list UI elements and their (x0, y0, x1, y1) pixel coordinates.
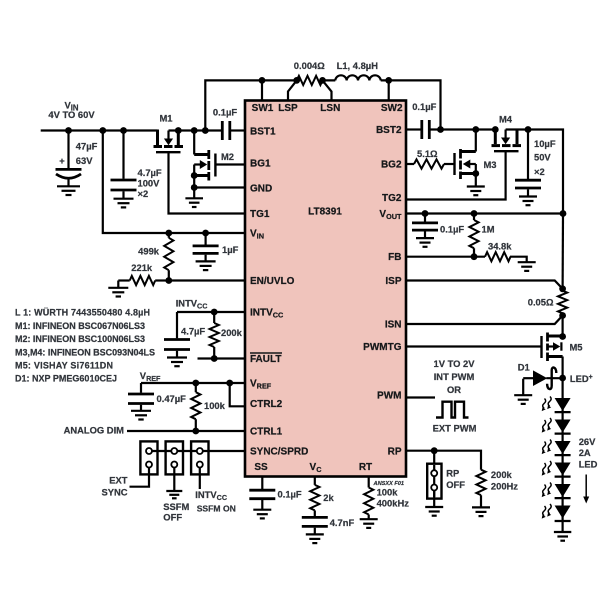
junction INTVCC 200k (211, 309, 218, 316)
wire VIN rail (41, 129, 158, 131)
node VIN label (48, 100, 95, 121)
svg-text:+: + (59, 155, 65, 166)
wire SW2 stem (388, 80, 390, 101)
wire INTVCC pin (177, 311, 245, 313)
junction VOUT 0.1uF (422, 210, 429, 217)
junction M2 drain drop (191, 127, 198, 134)
junction FAULT row (211, 355, 218, 362)
svg-text:BST1: BST1 (250, 127, 276, 138)
svg-text:EN/UVLO: EN/UVLO (250, 276, 295, 287)
wire BG1 to M2 gate (215, 163, 245, 165)
wire LSP stem (288, 80, 297, 101)
svg-text:RP: RP (388, 446, 402, 457)
svg-text:4V TO 60V: 4V TO 60V (48, 109, 95, 120)
ground under R10 (472, 507, 490, 516)
jumper JP3 (SSFM ON) (191, 441, 208, 489)
svg-text:200k: 200k (491, 469, 513, 480)
svg-text:4.7µF: 4.7µF (138, 167, 162, 178)
wire M4 gate to TG2 (406, 151, 506, 199)
junction 0.05 ohm bottom (559, 312, 566, 319)
capacitor C8 4.7nF (302, 517, 355, 534)
svg-text:4.7µF: 4.7µF (181, 326, 205, 337)
svg-text:2A: 2A (579, 447, 591, 458)
svg-text:2k: 2k (323, 492, 334, 503)
junction top-rail riser (202, 127, 209, 134)
wire SW1 stem (261, 80, 263, 101)
label SSFM OFF (163, 501, 189, 523)
capacitor C10 10uF 50V x2 (515, 130, 556, 197)
ground under C6 (131, 411, 151, 420)
svg-text:ISN: ISN (385, 320, 402, 331)
junction CTRL1 row (192, 428, 199, 435)
junction top rail SW1 stem (259, 77, 266, 84)
junction on VIN rail at VIN pin drop (99, 127, 106, 134)
svg-text:200k: 200k (221, 327, 243, 338)
svg-text:ISP: ISP (385, 276, 401, 287)
junction top rail SW2 stem (385, 77, 392, 84)
ground under C2 (114, 199, 134, 208)
svg-text:M5: M5 (570, 342, 583, 353)
pin FAULT label with overline (250, 353, 282, 365)
svg-text:TG2: TG2 (382, 193, 402, 204)
junction 0.05 ohm top (559, 285, 566, 292)
svg-text:SYNC/SPRD: SYNC/SPRD (250, 447, 308, 458)
wire M4 source to VOUT corner (506, 130, 563, 214)
resistor R10 200k 200Hz (476, 469, 518, 507)
junction EN row (165, 277, 172, 284)
junction LED+ node (559, 375, 566, 382)
junction VREF CTRL2 jog (226, 380, 233, 387)
svg-text:SSFM ON: SSFM ON (197, 503, 236, 513)
svg-text:CTRL1: CTRL1 (250, 427, 283, 438)
wire LSN stem (323, 80, 332, 101)
svg-text:M1: M1 (159, 113, 172, 124)
ground under JP2 (166, 491, 182, 498)
junction VIN row 499k (165, 230, 172, 237)
wire PWMTG row (406, 345, 542, 347)
svg-text:100k: 100k (204, 400, 226, 411)
wire GND pin (194, 186, 245, 188)
transistor M5 N-MOSFET (542, 333, 583, 379)
ground under C7 (253, 510, 271, 519)
wire ISP row (406, 281, 563, 289)
svg-text:CTRL2: CTRL2 (250, 399, 283, 410)
junction BST2 riser (437, 126, 444, 133)
svg-text:RP: RP (446, 468, 459, 479)
svg-text:63V: 63V (76, 155, 93, 166)
svg-text:×2: ×2 (138, 188, 149, 199)
svg-text:OFF: OFF (163, 512, 182, 523)
svg-text:0.004Ω: 0.004Ω (294, 60, 325, 71)
svg-text:BG1: BG1 (250, 159, 271, 170)
node EXT SYNC label (101, 474, 127, 497)
wire PWM pin (406, 396, 435, 398)
svg-text:D1: NXP PMEG6010CEJ: D1: NXP PMEG6010CEJ (15, 374, 117, 384)
component list text block (15, 308, 155, 384)
ground under M3 (467, 187, 485, 196)
svg-text:47µF: 47µF (76, 141, 98, 152)
junction VIN row 1uF (202, 230, 209, 237)
svg-text:10µF: 10µF (534, 138, 556, 149)
ground under R6 (360, 519, 378, 528)
junction M3 drain riser (472, 126, 479, 133)
resistor R2 221k (118, 262, 169, 285)
diode D1 schottky (518, 362, 563, 395)
svg-text:34.8k: 34.8k (488, 240, 512, 251)
ground under 34.8k (518, 262, 536, 271)
LED 6 (542, 504, 571, 521)
wire top rail (SW1 node) (205, 80, 440, 130)
capacitor C1 47uF 63V electrolytic (56, 131, 98, 186)
svg-text:ANALOG DIM: ANALOG DIM (64, 425, 125, 436)
wire FB row (406, 256, 485, 258)
svg-text:100k: 100k (377, 486, 399, 497)
LED 4 (542, 461, 571, 477)
capacitor C5 4.7uF (INTVCC) (164, 312, 205, 357)
label INTVCC SSFM ON (195, 489, 236, 513)
capacitor C9 0.1uF (BST2) (406, 101, 495, 139)
svg-text:PWMTG: PWMTG (363, 342, 402, 353)
svg-text:BG2: BG2 (381, 160, 402, 171)
wire SYNC/SPRD pin (149, 450, 245, 452)
svg-text:1µF: 1µF (222, 244, 239, 255)
svg-text:SW2: SW2 (381, 103, 403, 114)
svg-text:LSN: LSN (320, 103, 340, 114)
resistor R7 5.1 ohm (BG2) (406, 148, 455, 169)
jumper JP4 (RP OFF) (427, 451, 441, 507)
junction sense resistor left (293, 77, 300, 84)
resistor R4 100k (VREF-CTRL1) (191, 383, 225, 431)
wire CTRL1 pin (127, 430, 245, 432)
svg-text:0.1µF: 0.1µF (412, 101, 436, 112)
transistor M4 N-MOSFET (492, 114, 522, 152)
capacitor C3 0.1uF (BST1) (213, 107, 245, 141)
svg-text:0.1µF: 0.1µF (278, 489, 302, 500)
svg-text:BST2: BST2 (376, 125, 402, 136)
LED 3 (542, 440, 571, 456)
wire CTRL2 jog (230, 383, 245, 406)
svg-text:TG1: TG1 (250, 209, 270, 220)
svg-text:L 1: WÜRTH 7443550480 4.8µH: L 1: WÜRTH 7443550480 4.8µH (15, 308, 150, 318)
svg-text:M3,M4: INFINEON BSC093N04LS: M3,M4: INFINEON BSC093N04LS (15, 348, 155, 358)
capacitor C2 4.7uF 100V x2 (111, 131, 162, 200)
svg-text:M1: INFINEON BSC067N06LS3: M1: INFINEON BSC067N06LS3 (15, 321, 145, 331)
transistor M2 N-MOSFET (191, 131, 234, 188)
svg-text:OFF: OFF (446, 479, 465, 490)
svg-text:INT PWM: INT PWM (434, 371, 475, 382)
svg-text:0.05Ω: 0.05Ω (528, 297, 554, 308)
transistor M1 N-MOSFET (154, 113, 184, 153)
resistor R6 100k 400kHz (RT) (364, 477, 409, 519)
svg-text:221k: 221k (131, 262, 153, 273)
svg-text:400kHz: 400kHz (377, 498, 410, 509)
junction M2 source / GND (191, 184, 198, 191)
junction FB row (471, 253, 478, 260)
svg-text:4.7nF: 4.7nF (330, 517, 355, 528)
svg-text:26V: 26V (579, 436, 596, 447)
wire LED string backbone (561, 378, 563, 531)
ground under JP4 (425, 507, 443, 516)
waveform EXT PWM symbol (436, 402, 469, 418)
wire 0.05 ohm to M5 drain (561, 313, 563, 336)
wire RP row (406, 451, 481, 470)
LED 5 (542, 483, 571, 499)
wire VREF pin (141, 382, 245, 384)
svg-text:LED: LED (579, 459, 598, 470)
svg-text:LSP: LSP (278, 103, 298, 114)
IC U1 LT8391 body (245, 101, 406, 477)
ground left of 221k (108, 281, 128, 297)
junction VREF 100k (192, 380, 199, 387)
junction on VIN rail at 47uF (65, 127, 72, 134)
svg-text:RT: RT (359, 462, 372, 473)
wire EN/UVLO (169, 279, 245, 281)
svg-text:LT8391: LT8391 (308, 207, 342, 218)
ground under D1 (514, 395, 532, 404)
label RP OFF (446, 468, 465, 491)
svg-text:5.1Ω: 5.1Ω (417, 148, 438, 159)
svg-text:M2: M2 (221, 151, 234, 162)
label 26V 2A LED with arrow (579, 436, 598, 504)
jumper JP1 (EXT SYNC) (130, 441, 158, 486)
LED 1 (542, 397, 571, 413)
wire SW1/BST1 rail (M1 source to BST1 cap) (169, 129, 222, 131)
wire M1 gate to TG1 (169, 152, 246, 213)
svg-text:FB: FB (388, 252, 401, 263)
svg-text:M2: INFINEON BSC100N06LS3: M2: INFINEON BSC100N06LS3 (15, 334, 145, 344)
transistor M3 N-MOSFET (455, 130, 497, 187)
ground under C11 (416, 238, 434, 247)
resistor RS2 0.05 ohm (528, 291, 567, 314)
svg-text:SS: SS (254, 462, 268, 473)
capacitor C4 1uF (193, 233, 239, 261)
junction sense resistor right (319, 77, 326, 84)
ground under C5 (167, 358, 187, 367)
inductor L1 4.8uH (335, 60, 380, 81)
junction VOUT right corner (560, 210, 567, 217)
svg-text:SW1: SW1 (252, 103, 274, 114)
svg-text:200Hz: 200Hz (491, 481, 518, 492)
svg-text:GND: GND (250, 184, 272, 195)
resistor R3 200k (INTVCC-FAULT) (210, 312, 243, 359)
svg-text:SSFM: SSFM (163, 501, 189, 512)
LED 2 (542, 418, 571, 434)
svg-text:×2: ×2 (534, 166, 545, 177)
svg-text:0.1µF: 0.1µF (213, 107, 237, 118)
junction RP jumper (431, 447, 438, 454)
wire FAULT pin (198, 357, 246, 359)
jumper JP2 (SSFM OFF) (166, 441, 183, 490)
junction M1 source tab (175, 127, 182, 134)
capacitor C6 0.47uF (VREF) (128, 383, 186, 410)
label 1V TO 2V INT PWM OR (434, 358, 476, 395)
resistor R8 1M (469, 214, 494, 257)
svg-text:M3: M3 (484, 159, 497, 170)
wire VOUT corner to 0.05 ohm (561, 214, 564, 291)
resistor R5 2k (VC) (310, 477, 334, 517)
svg-text:1V TO 2V: 1V TO 2V (434, 358, 476, 369)
svg-text:M5: VISHAY Si7611DN: M5: VISHAY Si7611DN (15, 360, 113, 370)
capacitor C7 0.1uF (SS) (249, 477, 302, 510)
svg-text:PWM: PWM (377, 391, 401, 402)
svg-text:499k: 499k (138, 246, 160, 257)
wire VIN pin line (103, 131, 245, 234)
svg-text:1M: 1M (482, 223, 495, 234)
svg-text:D1: D1 (518, 362, 530, 373)
junction on VIN rail at 4.7uF (120, 127, 127, 134)
capacitor C11 0.1uF (VOUT) (412, 214, 464, 238)
svg-text:OR: OR (447, 384, 461, 395)
junction 10uF stem (525, 126, 532, 133)
svg-text:0.1µF: 0.1µF (440, 223, 464, 234)
ground under LED string (554, 532, 571, 541)
ground under C8 (306, 534, 324, 543)
svg-text:EXT: EXT (109, 474, 128, 485)
ground under C1 (57, 186, 80, 195)
ground under M2 (185, 188, 203, 208)
svg-text:100V: 100V (138, 177, 161, 188)
ground under C10 (519, 197, 537, 206)
wire VOUT row (406, 212, 563, 214)
svg-text:FAULT: FAULT (250, 354, 281, 365)
svg-text:M4: M4 (499, 114, 513, 125)
svg-text:50V: 50V (534, 152, 551, 163)
ground under C4 (196, 261, 216, 270)
junction VOUT 1M (471, 210, 478, 217)
wire ISN row (406, 316, 563, 325)
resistor R1 499k (138, 233, 173, 281)
resistor RS1 0.004 ohm (294, 60, 325, 85)
resistor R9 34.8k (485, 240, 527, 261)
svg-text:0.47µF: 0.47µF (157, 393, 187, 404)
svg-text:EXT PWM: EXT PWM (433, 423, 477, 434)
svg-text:L1, 4.8µH: L1, 4.8µH (337, 60, 379, 71)
junction M4 left tab (492, 126, 499, 133)
svg-text:SYNC: SYNC (101, 486, 127, 497)
